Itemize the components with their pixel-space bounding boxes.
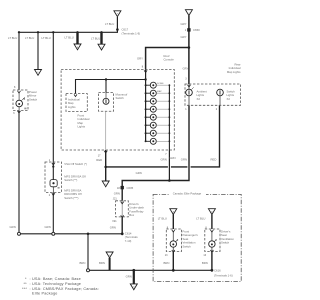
svg-text:GRN: GRN [169, 156, 175, 160]
canada elite package box [153, 194, 241, 281]
node C617 [116, 28, 119, 31]
vent switch 1 box [166, 229, 181, 252]
wire under-dash internal [121, 201, 123, 217]
svg-text:GRN: GRN [114, 192, 120, 196]
connector circle C614-a [18, 232, 21, 235]
wire LT BLU bus [19, 17, 117, 32]
svg-text:BRN: BRN [99, 261, 105, 265]
svg-text:J21: J21 [113, 198, 118, 201]
wire feed shaft [109, 258, 111, 271]
connector triangle B [98, 44, 105, 50]
svg-text::: : [30, 282, 31, 286]
svg-text:GRN: GRN [45, 225, 51, 229]
under-dash box [116, 201, 129, 217]
node ground drop [132, 269, 135, 272]
wire GRN ambient pin1 [122, 105, 189, 201]
roof console box [13, 70, 241, 252]
wire drop to ground line [87, 234, 89, 269]
wire inside VSA switch [52, 162, 54, 180]
wire to power mirror switch [18, 32, 20, 90]
node vent2 ground [211, 269, 214, 272]
svg-text:RED: RED [96, 158, 102, 162]
bulb right leads [156, 85, 169, 141]
wire to VSA off switch [52, 32, 54, 162]
svg-text:USA: Technology Package: USA: Technology Package [32, 282, 81, 286]
wire inside vent2 [211, 231, 213, 241]
node bus junction 1 [18, 31, 20, 33]
svg-text:VSA Off Switch (*): VSA Off Switch (*) [64, 162, 87, 166]
svg-text:LT BLU: LT BLU [158, 217, 167, 221]
svg-text:BRN: BRN [164, 261, 170, 265]
rear individual map lights box [185, 84, 241, 105]
wire inside moonroof switch [105, 93, 107, 99]
node map light feed junction [144, 78, 146, 80]
wire VSA switch to C614 [52, 192, 54, 232]
svg-text:GRN: GRN [161, 157, 167, 161]
wire inside ambient lights [188, 84, 190, 89]
wire moonroof drop [105, 80, 107, 93]
svg-text:LT BLU: LT BLU [91, 36, 100, 40]
svg-text:USA: Base; Canada: Base: USA: Base; Canada: Base [32, 277, 81, 281]
vent1 bulb [170, 240, 178, 248]
svg-text:GRN: GRN [181, 157, 187, 161]
wire vent1 bottom [172, 252, 174, 271]
svg-text:LT BLU: LT BLU [8, 36, 17, 40]
bulb 2 [150, 90, 156, 96]
svg-text:Switch: Switch [183, 244, 192, 248]
svg-text::: : [30, 277, 31, 281]
node pin17 red junction [104, 166, 107, 169]
svg-text:J: J [188, 13, 189, 15]
connector circle ground-line left [87, 269, 90, 272]
wire RED run [106, 166, 168, 168]
vent2 bulb [209, 240, 217, 248]
bulb 8 [150, 138, 156, 144]
wire ground shaft [133, 270, 135, 283]
svg-text:USA: CMBS/PAX Package; Canada:: USA: CMBS/PAX Package; Canada: [32, 287, 99, 291]
svg-text:Switch: Switch [116, 96, 125, 100]
wire inside switch lights [219, 96, 221, 106]
svg-text:C616: C616 [214, 269, 221, 273]
svg-text:C605: C605 [127, 186, 134, 190]
right bus [168, 85, 170, 150]
wire vent2 bottom [211, 252, 213, 271]
bulb 3 [150, 98, 156, 104]
wire thick drop B [100, 32, 102, 44]
node moonroof feed [105, 78, 107, 80]
wire ground line [90, 269, 212, 271]
moonroof switch box [99, 93, 114, 112]
wire power mirror to C614 [18, 111, 20, 233]
svg-text:C650: C650 [193, 28, 200, 32]
wire RED run part2 [171, 166, 188, 168]
svg-text:Switch (**): Switch (**) [64, 178, 77, 182]
svg-text:Switch: Switch [29, 97, 38, 101]
connector triangle drop2 [35, 70, 42, 76]
connector triangle feed [106, 252, 113, 258]
node GRY branch junction [188, 46, 191, 49]
connector triangle vent1 [170, 209, 177, 215]
svg-text:**: ** [24, 282, 28, 286]
wire roof console pin7 [168, 150, 170, 181]
svg-text:(Terminals 1-6): (Terminals 1-6) [214, 273, 233, 277]
svg-text:GRY: GRY [181, 22, 187, 26]
svg-text:LT BLU: LT BLU [25, 36, 34, 40]
svg-text:Elite Package: Elite Package [32, 292, 58, 296]
node bus junction 4 [76, 31, 78, 33]
svg-text:BRN: BRN [80, 261, 86, 265]
svg-text:Console: Console [164, 58, 175, 62]
entry chevrons [18, 70, 214, 252]
svg-text:BRN: BRN [202, 261, 208, 265]
svg-text:X2: X2 [227, 97, 231, 101]
svg-text:GRY: GRY [181, 35, 187, 39]
svg-text:Lights: Lights [78, 125, 86, 129]
wire GRY branch to roof console pin 8 [146, 48, 189, 70]
wire vent1 top [172, 215, 174, 230]
connector triangle vent2 [208, 209, 215, 215]
svg-text:GRY: GRY [137, 56, 143, 60]
moonroof internal wire [105, 111, 107, 150]
node pin7 grn junction [168, 179, 171, 182]
svg-text:MAP: MAP [157, 90, 162, 93]
svg-text:LT BLU: LT BLU [42, 36, 51, 40]
bulb 4 [150, 106, 156, 112]
node C614 drop [87, 233, 90, 236]
svg-text::: : [30, 287, 31, 291]
wire GRY from top [188, 16, 190, 85]
svg-text:GRY: GRY [183, 66, 189, 70]
svg-text:LT BLU: LT BLU [196, 217, 205, 221]
svg-text:Switch (***): Switch (***) [64, 196, 78, 200]
wire thick drop A [76, 32, 78, 44]
svg-text:Map Lights: Map Lights [227, 70, 241, 74]
bulb 1 [150, 82, 156, 88]
wire RED run part3 [191, 105, 220, 167]
svg-text:GRN: GRN [136, 171, 142, 175]
power mirror bulb [16, 98, 25, 107]
connector triangle ground [130, 284, 137, 290]
connector triangle A [74, 44, 81, 50]
wire inside power mirror [18, 93, 20, 100]
connector circle C614-b [52, 232, 55, 235]
wire roof console pin17 [105, 150, 107, 181]
svg-text:(Terminals 1-9): (Terminals 1-9) [122, 32, 141, 36]
connector triangle pin17 bottom [102, 181, 109, 187]
svg-text:7-10): 7-10) [125, 239, 132, 243]
wire map lights feed [76, 80, 146, 94]
svg-text:X2: X2 [197, 97, 201, 101]
node vent1 ground [172, 269, 175, 272]
svg-text:GRN: GRN [110, 225, 116, 229]
svg-text:LT BLU: LT BLU [65, 35, 74, 39]
connector triangle C617 top [114, 11, 121, 17]
roof console bulb column [106, 82, 171, 150]
node bus junction 5 [100, 31, 102, 33]
node bus junction 2 [37, 31, 39, 33]
svg-text:GRN: GRN [10, 225, 16, 229]
VSA off switch box [45, 162, 62, 192]
power mirror switch box [13, 90, 28, 111]
wire drop 2 [37, 32, 39, 69]
svg-text:***: *** [22, 287, 27, 291]
wire vent2 top [211, 215, 213, 230]
node C614 end [121, 232, 124, 235]
svg-text:Switch: Switch [221, 241, 230, 245]
svg-text:Canada: Elite Package: Canada: Elite Package [173, 192, 202, 196]
bulb 7 [150, 130, 156, 136]
svg-text:Lights: Lights [68, 105, 76, 109]
bulb 5 [150, 114, 156, 120]
connector triangle GRY top [185, 10, 192, 16]
svg-text:X21: X21 [112, 220, 117, 223]
bulb 6 [150, 122, 156, 128]
wire C614 line [21, 233, 123, 235]
svg-text:LT BLU: LT BLU [105, 22, 114, 26]
svg-text:Box: Box [129, 213, 134, 217]
ambient lights bulb [186, 87, 194, 95]
wire under-dash to C614 [121, 217, 123, 234]
svg-text:DOME: DOME [157, 83, 164, 85]
moonroof bulb [103, 98, 109, 104]
node bus junction 3 [52, 31, 54, 33]
switch lights bulb [217, 89, 224, 96]
vent switch 2 box [205, 229, 220, 252]
svg-text:GRN: GRN [126, 275, 132, 279]
VSA switch symbol [24, 108, 59, 189]
svg-text:RED: RED [211, 157, 217, 161]
individual map lights box [66, 94, 87, 112]
connector C605 inline [121, 186, 124, 189]
wire pin8 inside console [145, 70, 147, 142]
wire inside vent1 [172, 231, 174, 241]
connector C650 inline [187, 28, 190, 31]
